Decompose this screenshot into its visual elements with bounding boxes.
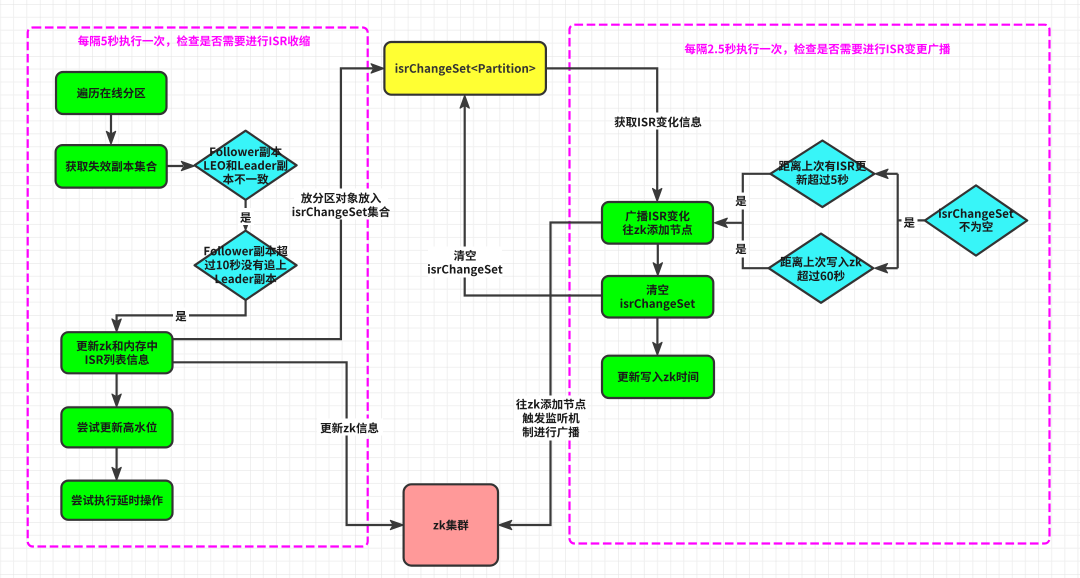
label box7 text	[620, 284, 695, 310]
label box1 text	[77, 87, 145, 98]
label yes label w4	[175, 311, 186, 321]
label box2 text	[66, 161, 157, 172]
wire box2 to diamond D1	[167, 165, 183, 167]
label bg get isr change label	[613, 113, 703, 130]
arrowhead a1	[106, 131, 115, 144]
label get isr change text	[614, 116, 701, 127]
right dashed region (ISR broadcast check every 2.5s)	[570, 25, 1050, 544]
left dashed region (ISR shrink check every 5s)	[28, 28, 368, 547]
wire box6 to zk cluster	[510, 223, 603, 526]
box4 尝试更新高水位	[61, 407, 172, 447]
wire D5 to D3/D4 junction	[898, 219, 925, 221]
arrowhead a8	[390, 520, 403, 529]
arrowhead a14	[875, 169, 888, 178]
label yellow text	[395, 63, 535, 75]
label bg put partition label	[294, 189, 388, 220]
wire D3 to box6	[726, 174, 771, 223]
wire box4 to box5	[115, 447, 117, 469]
arrowhead a6	[112, 467, 121, 480]
label put partition label text	[292, 192, 390, 218]
arrowhead a2	[181, 161, 194, 170]
label box4 text	[77, 422, 156, 433]
label D1 text	[204, 146, 287, 184]
label box5 text	[72, 495, 163, 506]
arrowhead a10	[653, 263, 662, 276]
wire box3 to box4	[115, 373, 117, 396]
box2 获取失效副本集合	[56, 145, 167, 188]
label D2 text	[204, 246, 287, 285]
label update zk info text	[321, 422, 379, 433]
label bg yes3	[733, 193, 749, 210]
wire D4 to box6	[743, 223, 769, 268]
wire D1 to D2	[245, 200, 247, 220]
wire into D4 right	[886, 267, 898, 269]
label bg yes1	[238, 208, 254, 225]
box5 尝试执行延时操作	[61, 481, 172, 520]
arrowhead a16	[715, 218, 728, 227]
arrowhead a3	[241, 218, 250, 231]
label zk cluster text	[433, 520, 468, 531]
wire junction vertical	[897, 174, 899, 268]
label yes label w3	[240, 212, 251, 222]
wire box3 to yellow isrChangeSet	[173, 68, 374, 339]
label bg update zk info label	[317, 419, 383, 436]
wire into D3 right	[886, 173, 898, 175]
wire box6 to box7	[657, 244, 659, 265]
label D5 text	[939, 208, 1014, 232]
label left title	[78, 35, 310, 46]
label box3 text	[77, 340, 157, 365]
label bg yes5	[902, 217, 918, 234]
arrowhead a9	[653, 189, 662, 202]
diamond D5 isrChangeSet not empty	[925, 185, 1027, 255]
box1 遍历在线分区	[56, 72, 167, 114]
yellow box isrChangeSet<Partition>	[384, 42, 546, 95]
diamond D4 zk write over 60s	[769, 234, 874, 303]
wire box7 to box8	[656, 318, 658, 345]
label D3 text	[779, 160, 866, 185]
label D4 text	[780, 256, 862, 281]
wire D2 to box3	[117, 300, 246, 321]
label bg zk add node label	[514, 396, 588, 441]
box8 更新写入zk时间	[602, 356, 714, 398]
arrowhead a13	[460, 95, 469, 108]
label right title	[685, 43, 951, 54]
arrowhead a7	[371, 64, 384, 73]
label clear label text	[428, 250, 503, 276]
wire yellow to box6	[546, 68, 657, 190]
arrowhead a4	[112, 319, 121, 332]
label zk add node text	[516, 399, 586, 438]
label box6 text	[623, 210, 693, 235]
label yes label w14	[904, 217, 915, 227]
label box8 text	[618, 371, 699, 382]
label bg yes4	[733, 241, 749, 258]
arrowhead a15	[875, 264, 888, 273]
arrowhead a5	[112, 394, 121, 407]
label yes label w15 top	[735, 196, 746, 206]
box6 广播ISR变化往zk添加节点	[602, 202, 713, 244]
arrowhead a11	[653, 342, 662, 355]
box3 更新zk和内存中ISR列表信息	[61, 332, 172, 373]
wire box7 to yellow (clear)	[465, 106, 602, 296]
diamond D3 ISR updated within 5s	[770, 141, 874, 208]
box7 清空isrChangeSet	[602, 276, 713, 318]
arrowhead a12	[499, 520, 512, 529]
label bg yes2	[173, 308, 189, 325]
diamond D2 Follower behind 10s	[195, 231, 297, 300]
zk cluster box	[404, 484, 498, 565]
diamond D1 Follower LEO/Leader mismatch	[195, 131, 297, 200]
label yes label w15 bottom	[735, 244, 746, 254]
wire box1 to box2	[110, 113, 112, 134]
label bg clear label	[428, 247, 502, 278]
wire box3 to zk cluster	[173, 362, 393, 525]
